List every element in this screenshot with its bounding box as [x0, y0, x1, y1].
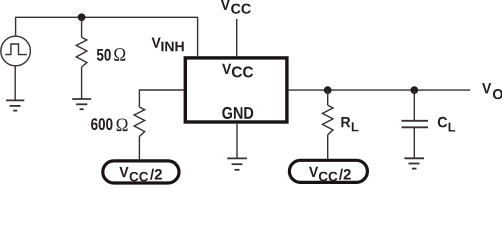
ground below CL — [404, 158, 424, 168]
capacitor CL — [402, 90, 429, 158]
label VCC/2 left — [119, 167, 161, 182]
resistor R 50ohm — [76, 17, 87, 99]
pin label GND — [222, 107, 253, 119]
label CL — [438, 117, 455, 132]
source VCC/2 left oval — [103, 161, 179, 183]
ground below box — [227, 158, 247, 169]
wire VCC supply to box — [236, 19, 238, 56]
pin label VCC — [222, 64, 253, 78]
ground below 50ohm — [72, 99, 91, 109]
resistor R 600ohm — [134, 107, 145, 159]
node A junction dot — [78, 13, 86, 21]
node C junction dot — [410, 86, 418, 94]
node B junction dot — [324, 86, 332, 94]
ground below source — [6, 100, 24, 110]
wire source-bottom to ground — [14, 65, 16, 100]
label 50 ohm — [97, 48, 125, 61]
label VCC/2 right — [309, 167, 351, 182]
resistor RL — [322, 90, 333, 159]
label VINH — [152, 38, 184, 52]
pulse source V1 — [1, 36, 31, 66]
wire source-top to box input — [16, 17, 198, 56]
wire box left pin to 600ohm — [139, 90, 183, 107]
label VCC supply — [221, 0, 251, 14]
wire output — [289, 89, 471, 91]
IC U1 (device under test) box — [185, 58, 287, 122]
label 600 ohm — [91, 118, 127, 131]
label RL — [341, 117, 358, 131]
label VO — [482, 83, 502, 99]
wire box GND pin to ground — [236, 124, 238, 159]
source VCC/2 right oval — [289, 160, 367, 182]
